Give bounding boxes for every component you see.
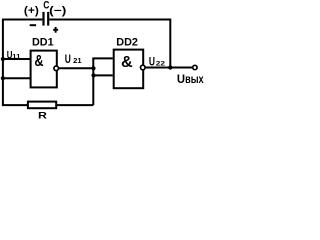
gate DD2 box [114,50,144,89]
svg-text:DD1: DD1 [32,36,54,48]
wire left rail [2,19,4,106]
svg-text:&: & [121,54,133,71]
wire DD1 input bottom [3,77,32,79]
wire DD2 input top [92,57,112,59]
junction dot right vertical / DD2 output [168,65,172,69]
node U11 [7,49,21,61]
svg-text:U: U [177,72,185,86]
wire top-right from capacitor to right vertical [49,19,170,21]
node U22 [149,55,166,69]
wire mid vertical [92,58,94,105]
wire DD2 input bottom [93,74,112,76]
svg-text:11: 11 [12,53,21,60]
svg-text:U: U [65,52,71,66]
junction dot left rail / DD1 input bottom [1,76,5,80]
gate DD1 box [31,51,57,88]
wire DD1 output to mid vertical [59,67,94,69]
svg-text:&: & [34,53,43,70]
svg-text:R: R [38,111,47,121]
wire top-left from left rail to capacitor [3,19,43,21]
resistor R box [28,102,56,109]
wire DD2 output to terminal [145,67,192,69]
svg-text:DD2: DD2 [116,36,138,48]
junction dot left rail / DD1 input top [1,57,5,61]
svg-text:(−): (−) [49,5,67,17]
wire right vertical down to DD2 output node [169,19,171,68]
svg-text:(+): (+) [24,5,39,17]
svg-text:вых: вых [185,72,204,86]
node U21 [65,52,82,66]
wire bottom through R [2,104,93,106]
junction dot DD1 output / mid vertical [91,66,95,70]
svg-text:U: U [149,55,155,69]
junction dot DD2 input bottom / mid vertical [91,73,95,77]
node U vyh output label [177,72,204,86]
output terminal circle [193,65,197,69]
svg-text:21: 21 [73,56,81,65]
gate DD2 output bubble [141,65,146,70]
polarity plus mark [53,27,58,33]
gate DD1 output bubble [54,66,59,71]
wire DD1 input top [3,58,32,60]
polarity minus mark [30,24,36,26]
svg-text:22: 22 [156,61,166,68]
capacitor C plates [44,12,49,26]
